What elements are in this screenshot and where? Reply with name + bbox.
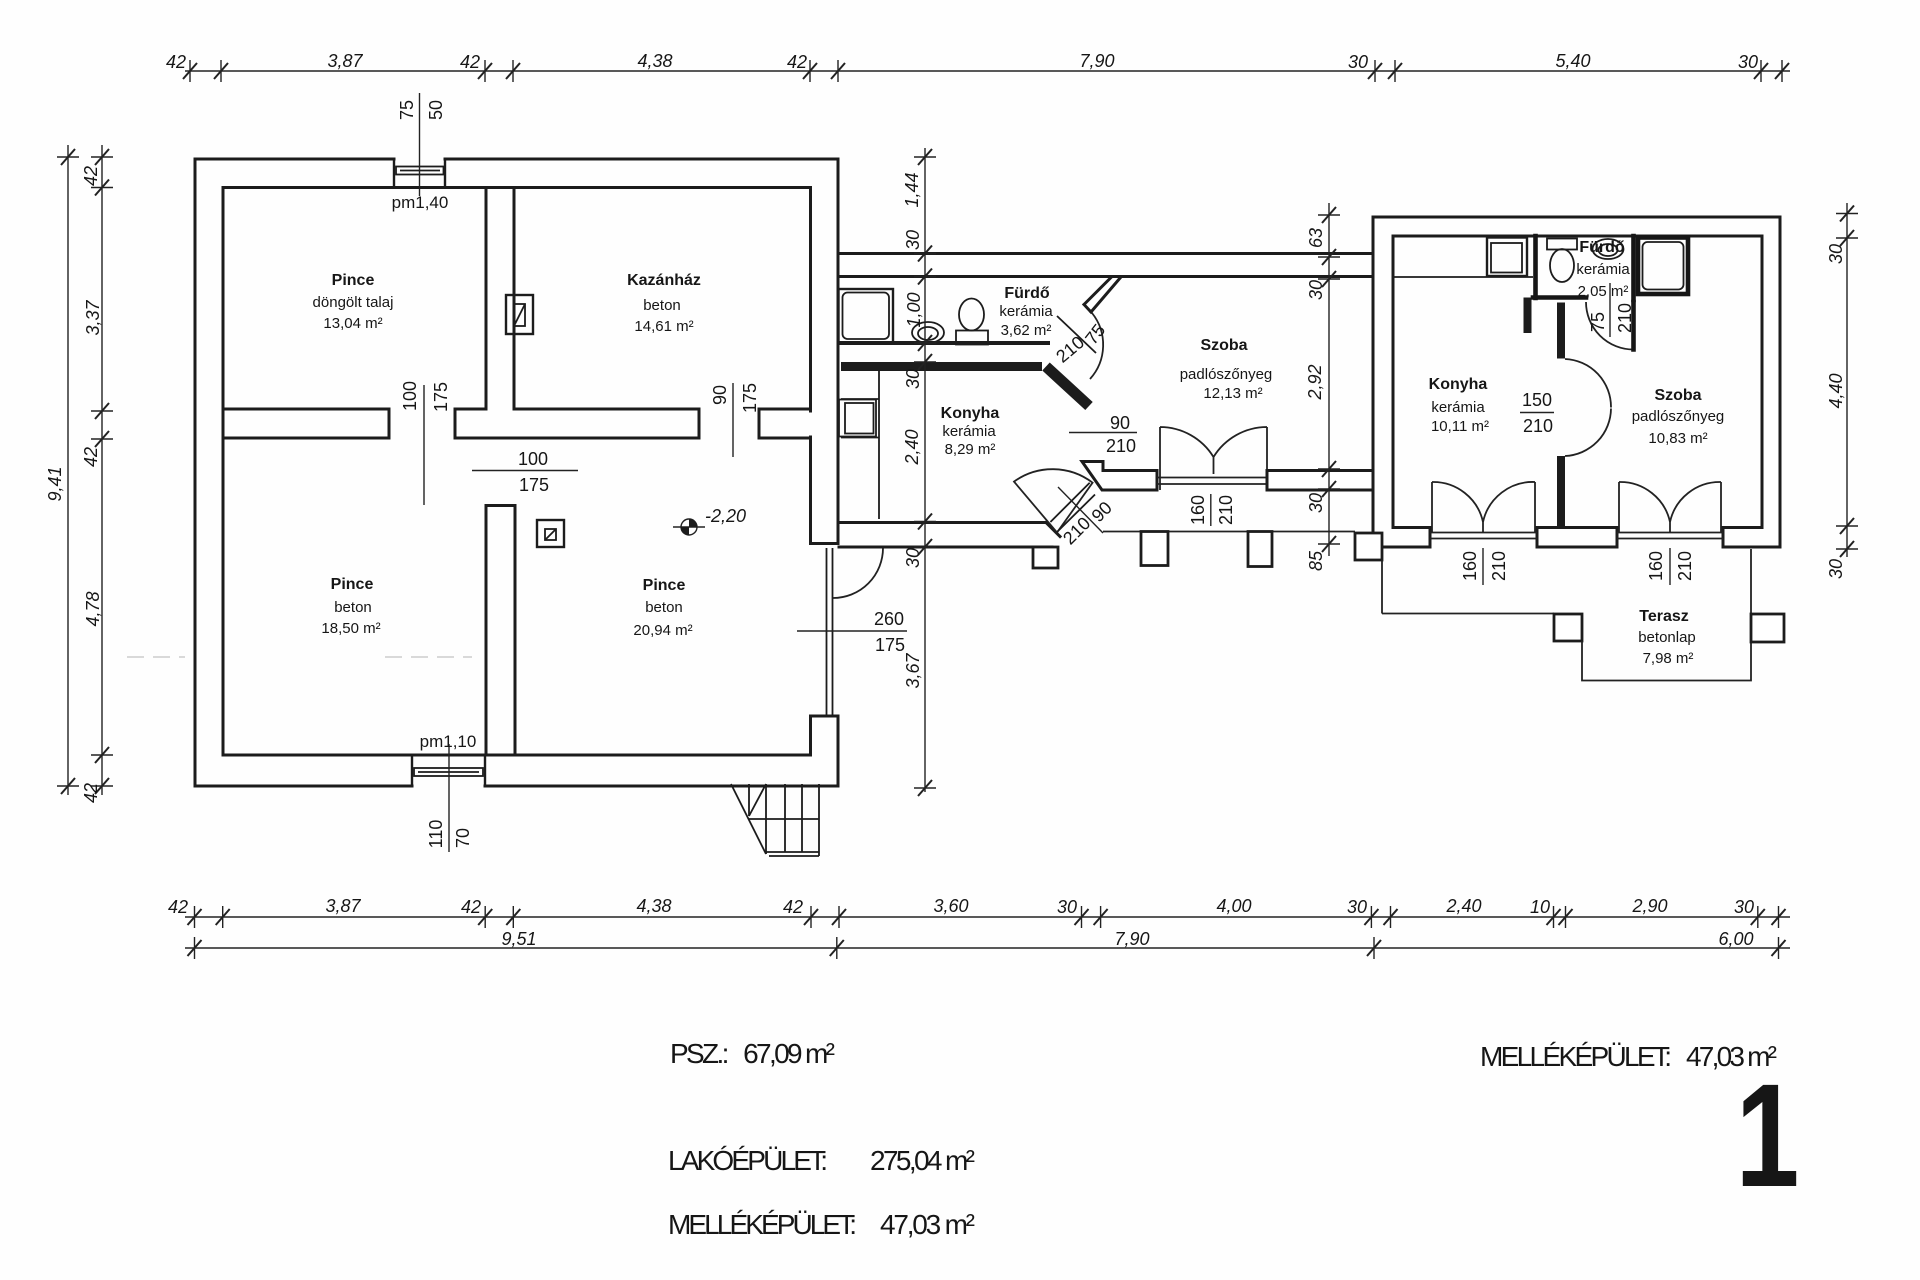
- terasz west edge line: [1381, 560, 1383, 614]
- svg-text:42: 42: [81, 783, 101, 803]
- Konyha top wall (30): [841, 362, 1042, 371]
- svg-text:5,40: 5,40: [1555, 51, 1590, 71]
- svg-text:90: 90: [710, 385, 730, 405]
- svg-text:beton: beton: [334, 599, 372, 616]
- central wall upper (Pince/Kazanhaz): [486, 188, 514, 410]
- chimney flue box (Kazanhaz): [506, 295, 533, 334]
- svg-text:4,38: 4,38: [637, 51, 672, 71]
- Furdo SE diagonal wall: [1084, 278, 1121, 313]
- svg-text:100: 100: [518, 449, 548, 469]
- svg-text:Pince: Pince: [643, 577, 686, 594]
- svg-text:6,00: 6,00: [1718, 929, 1753, 949]
- left building outer wall inner face: [223, 188, 811, 756]
- svg-text:pm1,40: pm1,40: [392, 193, 449, 212]
- svg-text:42: 42: [783, 897, 803, 917]
- svg-text:LAKÓÉPÜLET:: LAKÓÉPÜLET:: [668, 1145, 828, 1176]
- svg-text:14,61 m²: 14,61 m²: [634, 318, 693, 335]
- porch slab edge line: [1103, 531, 1355, 533]
- svg-text:150: 150: [1522, 390, 1552, 410]
- svg-text:110: 110: [426, 820, 446, 849]
- svg-text:beton: beton: [643, 297, 681, 314]
- svg-text:70: 70: [453, 828, 473, 848]
- svg-text:Szoba: Szoba: [1200, 337, 1247, 354]
- terasz pillar right: [1751, 614, 1784, 642]
- svg-text:175: 175: [875, 635, 905, 655]
- svg-text:85: 85: [1306, 550, 1326, 571]
- chimney flue box (Pince 20,94): [537, 520, 564, 547]
- interior partition (horizontal) segment A: [223, 409, 389, 438]
- svg-text:13,04 m²: 13,04 m²: [323, 315, 382, 332]
- svg-text:-2,20: -2,20: [705, 506, 746, 526]
- svg-text:42: 42: [81, 166, 101, 186]
- svg-text:10,11 m²: 10,11 m²: [1431, 418, 1489, 435]
- svg-text:12,13 m²: 12,13 m²: [1203, 385, 1262, 402]
- stairs (outside SE corner): [731, 784, 819, 856]
- Furdo 2,05 door arc+leaf: [1586, 302, 1634, 350]
- Konyha south wall (30) two faces: [839, 521, 1046, 524]
- sheet number 1: [1736, 1053, 1800, 1217]
- svg-text:160: 160: [1188, 495, 1208, 525]
- svg-text:1: 1: [1736, 1053, 1800, 1217]
- shower (Szoba NW corner): [1638, 238, 1688, 295]
- level mark -2,20: [673, 506, 746, 535]
- svg-text:padlószőnyeg: padlószőnyeg: [1180, 366, 1273, 383]
- svg-text:7,90: 7,90: [1079, 51, 1114, 71]
- wall stub below Furdo left wall: [1524, 298, 1532, 334]
- svg-text:260: 260: [874, 609, 904, 629]
- svg-text:30: 30: [1348, 52, 1368, 72]
- french door 2 (Szoba 10,83): [1619, 482, 1721, 533]
- svg-text:10,83 m²: 10,83 m²: [1648, 430, 1707, 447]
- svg-text:Konyha: Konyha: [1429, 376, 1488, 393]
- svg-text:30: 30: [1347, 897, 1367, 917]
- svg-text:Terasz: Terasz: [1639, 608, 1689, 625]
- svg-text:2,05 m²: 2,05 m²: [1578, 283, 1629, 300]
- svg-text:2,40: 2,40: [902, 429, 922, 465]
- svg-text:30: 30: [1826, 244, 1846, 264]
- Konyha 10,11 sink: [1487, 238, 1527, 277]
- Konyha NE diagonal wall: [1046, 367, 1089, 407]
- right building outer wall: [1373, 217, 1780, 547]
- bottom chain A: [185, 916, 1790, 918]
- entrance door 90/210 arc+leaf: [1014, 469, 1093, 532]
- doorway 90/210 label (to Szoba): [1069, 432, 1137, 434]
- svg-text:75: 75: [1588, 312, 1608, 332]
- svg-text:Fürdő: Fürdő: [1579, 239, 1625, 256]
- svg-text:30: 30: [1734, 897, 1754, 917]
- sink (Furdo 2,05): [1593, 239, 1624, 259]
- svg-text:42: 42: [81, 447, 101, 467]
- svg-text:175: 175: [740, 383, 760, 413]
- label 150/210: [1520, 412, 1554, 414]
- svg-text:9,41: 9,41: [45, 466, 65, 501]
- svg-text:Fürdő: Fürdő: [1004, 285, 1050, 302]
- svg-text:2,92: 2,92: [1305, 364, 1325, 400]
- svg-text:4,40: 4,40: [1826, 373, 1846, 408]
- svg-text:75: 75: [397, 100, 417, 120]
- svg-text:padlószőnyeg: padlószőnyeg: [1632, 408, 1725, 425]
- Konyha 8,29 sink: [839, 400, 876, 437]
- svg-text:30: 30: [903, 548, 923, 568]
- svg-text:47,03 m²: 47,03 m²: [880, 1209, 975, 1240]
- svg-text:50: 50: [426, 100, 446, 120]
- svg-text:100: 100: [400, 381, 420, 411]
- svg-text:3,67: 3,67: [903, 653, 923, 689]
- middle section top wall: [838, 254, 1373, 277]
- svg-text:9,51: 9,51: [501, 929, 536, 949]
- left outer chain 9,41: [67, 145, 69, 795]
- svg-text:1,44: 1,44: [902, 172, 922, 207]
- svg-text:kerámia: kerámia: [1431, 399, 1485, 416]
- svg-text:beton: beton: [645, 599, 683, 616]
- Furdo 2,05 walls: [1533, 236, 1634, 300]
- svg-text:7,98 m²: 7,98 m²: [1643, 650, 1694, 667]
- svg-text:42: 42: [166, 52, 186, 72]
- svg-text:42: 42: [461, 897, 481, 917]
- svg-text:160: 160: [1646, 551, 1666, 581]
- svg-text:4,78: 4,78: [83, 591, 103, 626]
- svg-text:Pince: Pince: [331, 576, 374, 593]
- terasz outline: [1582, 549, 1751, 681]
- svg-text:MELLÉKÉPÜLET:: MELLÉKÉPÜLET:: [1480, 1041, 1672, 1072]
- svg-text:3,60: 3,60: [933, 896, 968, 916]
- svg-text:3,87: 3,87: [325, 896, 361, 916]
- svg-text:1,00: 1,00: [904, 292, 924, 327]
- door 100/175 fraction label (lower): [472, 470, 578, 472]
- top dimension chain: [185, 70, 1790, 72]
- bottom wall pier edges: [1430, 528, 1723, 548]
- svg-text:30: 30: [903, 369, 923, 389]
- svg-text:30: 30: [1306, 280, 1326, 300]
- east wall opening caps (260 door): [811, 542, 839, 545]
- Furdo door 75/210 arc: [1090, 313, 1103, 379]
- svg-text:210: 210: [1489, 551, 1509, 581]
- svg-text:30: 30: [903, 230, 923, 250]
- door 150/210 double arcs: [1565, 359, 1611, 456]
- Furdo bottom wall line: [839, 341, 1050, 345]
- svg-text:3,62 m²: 3,62 m²: [1001, 322, 1052, 339]
- svg-text:42: 42: [460, 52, 480, 72]
- terasz west stub: [1355, 533, 1382, 560]
- Konyha 8,29 counter: [841, 371, 879, 519]
- svg-text:210: 210: [1106, 436, 1136, 456]
- svg-text:30: 30: [1738, 52, 1758, 72]
- Furdo middle: shower: [839, 289, 894, 343]
- door 90/175 center line (partition B-C gap): [732, 383, 734, 457]
- partition Konyha/Szoba lower: [1557, 456, 1565, 528]
- svg-text:PSZ.: 67,09 m²: PSZ.: 67,09 m²: [670, 1038, 835, 1069]
- svg-text:kerámia: kerámia: [999, 303, 1053, 320]
- svg-text:Pince: Pince: [332, 272, 375, 289]
- svg-text:30: 30: [1826, 559, 1846, 579]
- pillar 3: [1248, 532, 1272, 567]
- svg-text:7,90: 7,90: [1114, 929, 1149, 949]
- window pm1,10 dim line 110/70: [448, 744, 450, 852]
- south wall right piece: [1267, 471, 1373, 491]
- svg-text:42: 42: [168, 897, 188, 917]
- svg-text:10: 10: [1530, 897, 1550, 917]
- svg-text:kerámia: kerámia: [942, 423, 996, 440]
- svg-text:Konyha: Konyha: [941, 405, 1000, 422]
- svg-text:kerámia: kerámia: [1576, 261, 1630, 278]
- Furdo middle: sink: [912, 322, 944, 343]
- right building inner wall: [1393, 236, 1762, 528]
- label 160/210: [1210, 494, 1212, 526]
- svg-text:2,40: 2,40: [1445, 896, 1481, 916]
- Furdo 2,05 door dim 75/210: [1609, 283, 1611, 337]
- svg-text:90: 90: [1110, 413, 1130, 433]
- svg-text:210: 210: [1216, 495, 1236, 525]
- french door 1 (Konyha 10,11): [1432, 482, 1535, 533]
- left building outer wall outer face: [195, 159, 838, 786]
- svg-text:210: 210: [1523, 416, 1553, 436]
- svg-text:30: 30: [1306, 493, 1326, 513]
- svg-text:döngölt talaj: döngölt talaj: [313, 294, 394, 311]
- south wall left piece (under Szoba 12,13): [1082, 462, 1157, 491]
- szoba-right chain x=1329: [1328, 203, 1330, 556]
- label 260/175: [797, 630, 907, 632]
- WC (Furdo 2,05): [1547, 239, 1577, 250]
- entrance label 90/210 diagonal: [1058, 487, 1103, 533]
- french door leaves+arcs: [1160, 427, 1267, 490]
- left inner chain: [101, 145, 103, 795]
- svg-text:42: 42: [787, 52, 807, 72]
- svg-text:18,50 m²: 18,50 m²: [321, 620, 380, 637]
- pillar 1: [1033, 547, 1058, 568]
- svg-text:210: 210: [1675, 551, 1695, 581]
- window pm1,40 dim line 75/50: [419, 93, 421, 196]
- interior partition segment B with central wall T: [455, 409, 699, 438]
- svg-text:pm1,10: pm1,10: [420, 732, 477, 751]
- svg-text:8,29 m²: 8,29 m²: [945, 441, 996, 458]
- svg-text:4,00: 4,00: [1216, 896, 1251, 916]
- french door 160/210 sill (middle section): [1157, 478, 1267, 485]
- pillar 2: [1141, 532, 1168, 566]
- middle chain x=925: [924, 148, 926, 792]
- bottom chain B: [185, 947, 1790, 949]
- right chain x=1847: [1846, 203, 1848, 557]
- Furdo door leaf: [1057, 316, 1096, 353]
- Konyha 10,11 counter: [1393, 276, 1533, 278]
- svg-text:Kazánház: Kazánház: [627, 272, 701, 289]
- partition Konyha/Szoba upper: [1557, 303, 1565, 359]
- svg-text:3,87: 3,87: [327, 51, 363, 71]
- window pm1,10 bottom: [412, 754, 485, 786]
- svg-text:210: 210: [1615, 303, 1635, 333]
- svg-text:275,04 m²: 275,04 m²: [870, 1145, 975, 1176]
- svg-text:MELLÉKÉPÜLET:: MELLÉKÉPÜLET:: [668, 1209, 857, 1240]
- Furdo middle: WC: [956, 331, 988, 345]
- central wall lower (Pince/Pince): [486, 506, 515, 756]
- window pm1,40 top: [394, 159, 445, 188]
- svg-text:4,38: 4,38: [636, 896, 671, 916]
- svg-text:175: 175: [431, 382, 451, 412]
- svg-text:Szoba: Szoba: [1654, 387, 1701, 404]
- svg-text:2,90: 2,90: [1631, 896, 1667, 916]
- terasz pillar left: [1554, 614, 1582, 641]
- svg-text:160: 160: [1460, 551, 1480, 581]
- door 260/175 in east wall: [827, 548, 833, 715]
- svg-text:3,37: 3,37: [83, 300, 103, 336]
- svg-text:63: 63: [1306, 228, 1326, 248]
- interior partition segment C: [759, 409, 811, 438]
- svg-text:betonlap: betonlap: [1638, 629, 1696, 646]
- porch line under right building: [1382, 613, 1554, 615]
- scan artifact dashes: [127, 656, 472, 658]
- svg-text:20,94 m²: 20,94 m²: [633, 622, 692, 639]
- door 100/175 center line (partition A-B gap): [423, 385, 425, 505]
- svg-text:175: 175: [519, 475, 549, 495]
- svg-text:30: 30: [1057, 897, 1077, 917]
